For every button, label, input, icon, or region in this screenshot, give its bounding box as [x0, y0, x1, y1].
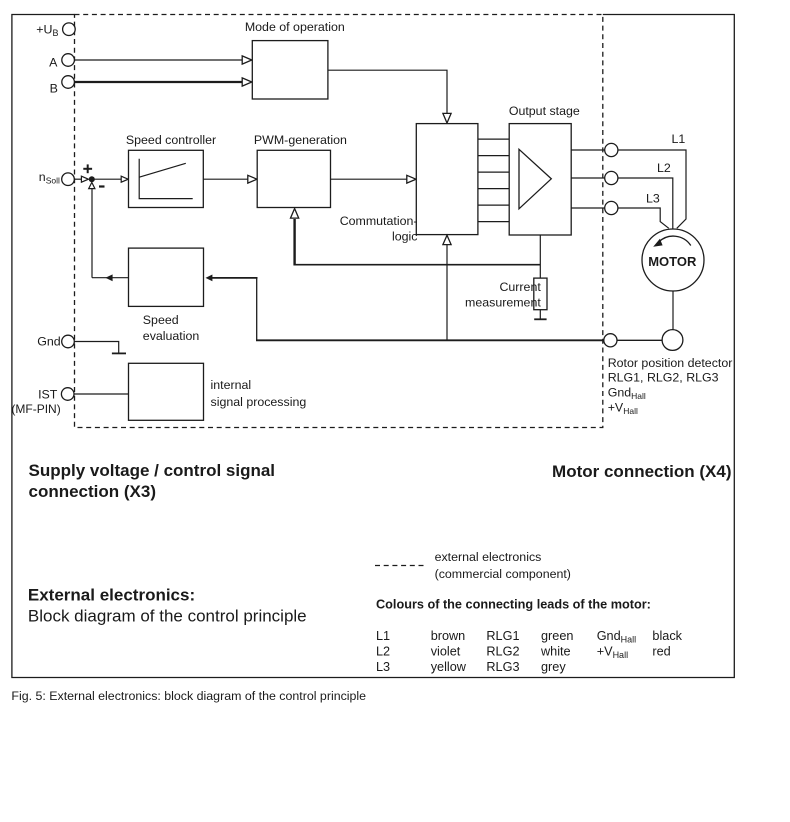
wire Speed evaluation to summing junction — [92, 277, 129, 279]
speed controller curve — [139, 159, 193, 199]
block Output stage U-amp — [509, 124, 571, 235]
svg-text:Current: Current — [499, 280, 541, 294]
svg-text:Commutation-: Commutation- — [340, 214, 418, 228]
svg-text:red: red — [652, 645, 670, 659]
svg-text:Gnd: Gnd — [37, 335, 61, 349]
svg-text:RLG3: RLG3 — [486, 660, 519, 674]
terminal Gnd — [62, 335, 75, 348]
svg-text:white: white — [540, 645, 571, 659]
svg-text:Rotor position detector: Rotor position detector — [608, 356, 733, 370]
svg-text:L2: L2 — [376, 645, 390, 659]
wire current feedback to PWM — [295, 264, 541, 266]
block Speed evaluation — [129, 248, 204, 306]
block Speed controller — [129, 150, 204, 207]
ground symbol — [112, 352, 126, 354]
svg-text:L3: L3 — [376, 660, 390, 674]
svg-text:IST: IST — [38, 387, 58, 401]
svg-text:Speed: Speed — [143, 313, 179, 327]
terminal rotor signals — [604, 334, 617, 347]
wire rotor feedback bus — [256, 339, 604, 341]
wire L1 output — [571, 149, 604, 151]
terminal nSoll — [62, 173, 75, 186]
svg-text:Block diagram of the control p: Block diagram of the control principle — [28, 607, 307, 626]
wire rotor feedback to Speed evaluation — [256, 278, 258, 341]
svg-text:internal: internal — [211, 378, 252, 392]
wire PWM-generation to Commutation logic — [331, 178, 409, 180]
wire summing junction to Speed controller — [95, 178, 122, 180]
block Commutation logic — [416, 124, 478, 235]
svg-text:external electronics: external electronics — [435, 550, 542, 564]
plus sign — [83, 164, 92, 173]
svg-text:External electronics:: External electronics: — [28, 586, 195, 605]
summing junction node — [89, 176, 95, 182]
svg-text:grey: grey — [541, 660, 566, 674]
terminal B — [62, 76, 75, 89]
terminal L1 — [605, 143, 618, 156]
minus sign — [99, 185, 105, 187]
amplifier triangle inside output stage — [519, 149, 551, 209]
svg-text:B: B — [50, 81, 58, 95]
svg-text:green: green — [541, 629, 573, 643]
wire L3 output — [571, 207, 604, 209]
svg-text:connection (X3): connection (X3) — [29, 482, 157, 501]
svg-text:RLG1, RLG2, RLG3: RLG1, RLG2, RLG3 — [608, 370, 719, 384]
external electronics dashed boundary — [75, 15, 603, 428]
wire Speed controller to PWM-generation — [203, 178, 249, 180]
ground below shunt — [539, 310, 541, 319]
svg-text:MOTOR: MOTOR — [648, 254, 697, 269]
svg-text:Speed controller: Speed controller — [126, 133, 216, 147]
svg-text:L2: L2 — [657, 161, 671, 175]
svg-text:evaluation: evaluation — [143, 329, 200, 343]
svg-text:A: A — [49, 55, 58, 69]
terminal A — [62, 54, 75, 67]
colour table row 2 — [376, 645, 671, 661]
motor rotation arrow — [659, 236, 691, 245]
svg-text:Output stage: Output stage — [509, 104, 580, 118]
colour table row 1 — [376, 629, 683, 645]
terminal IST — [61, 388, 74, 401]
block internal signal processing — [129, 363, 204, 420]
svg-text:black: black — [652, 629, 682, 643]
svg-text:signal processing: signal processing — [211, 395, 307, 409]
svg-text:(MF-PIN): (MF-PIN) — [11, 402, 60, 416]
svg-text:Supply voltage / control signa: Supply voltage / control signal — [29, 461, 276, 480]
svg-text:RLG1: RLG1 — [486, 629, 519, 643]
svg-text:logic: logic — [392, 230, 417, 244]
wire L3 to motor — [618, 208, 669, 228]
wire nSoll to summing junction — [74, 178, 81, 180]
rotor position detector — [662, 330, 683, 351]
wire motor to rotor position detector — [672, 291, 674, 330]
svg-text:(commercial component): (commercial component) — [435, 567, 571, 581]
svg-text:L3: L3 — [646, 191, 660, 205]
svg-text:measurement: measurement — [465, 296, 541, 310]
wire branch to commutation logic — [446, 245, 448, 340]
terminal L2 — [605, 171, 618, 184]
wire Mode of operation to Commutation logic — [328, 70, 447, 113]
block Mode of operation — [252, 41, 328, 99]
wire L1 to motor — [618, 150, 686, 228]
wire Gnd to ground symbol — [74, 342, 118, 354]
legend dashed line sample — [375, 565, 427, 567]
wire B to Mode of operation — [74, 81, 242, 83]
block PWM-generation — [257, 150, 330, 207]
svg-text:L1: L1 — [376, 629, 390, 643]
svg-text:yellow: yellow — [431, 660, 467, 674]
wire A to Mode of operation — [74, 59, 242, 61]
svg-text:RLG2: RLG2 — [486, 645, 519, 659]
svg-text:violet: violet — [431, 645, 461, 659]
wire output stage to shunt resistor — [539, 235, 541, 278]
wire L2 to motor — [618, 178, 673, 229]
wire rotor detector to terminal — [617, 339, 662, 341]
wire L2 output — [571, 177, 604, 179]
terminal +UB — [63, 23, 76, 36]
svg-text:Mode of operation: Mode of operation — [245, 20, 345, 34]
svg-text:brown: brown — [431, 629, 466, 643]
svg-text:PWM-generation: PWM-generation — [254, 133, 347, 147]
wire IST to internal signal processing — [74, 393, 129, 395]
svg-text:Colours of the connecting lead: Colours of the connecting leads of the m… — [376, 598, 651, 612]
svg-text:Motor connection (X4): Motor connection (X4) — [552, 462, 731, 481]
shunt resistor current measurement — [534, 278, 547, 310]
wires Commutation logic to Output stage (6 lines) — [478, 139, 509, 222]
motor M1 — [642, 229, 704, 291]
colour table row 3 — [376, 660, 566, 674]
svg-text:L1: L1 — [672, 132, 686, 146]
terminal L3 — [605, 201, 618, 214]
svg-text:Fig. 5: External electronics:: Fig. 5: External electronics: block diag… — [11, 689, 366, 703]
